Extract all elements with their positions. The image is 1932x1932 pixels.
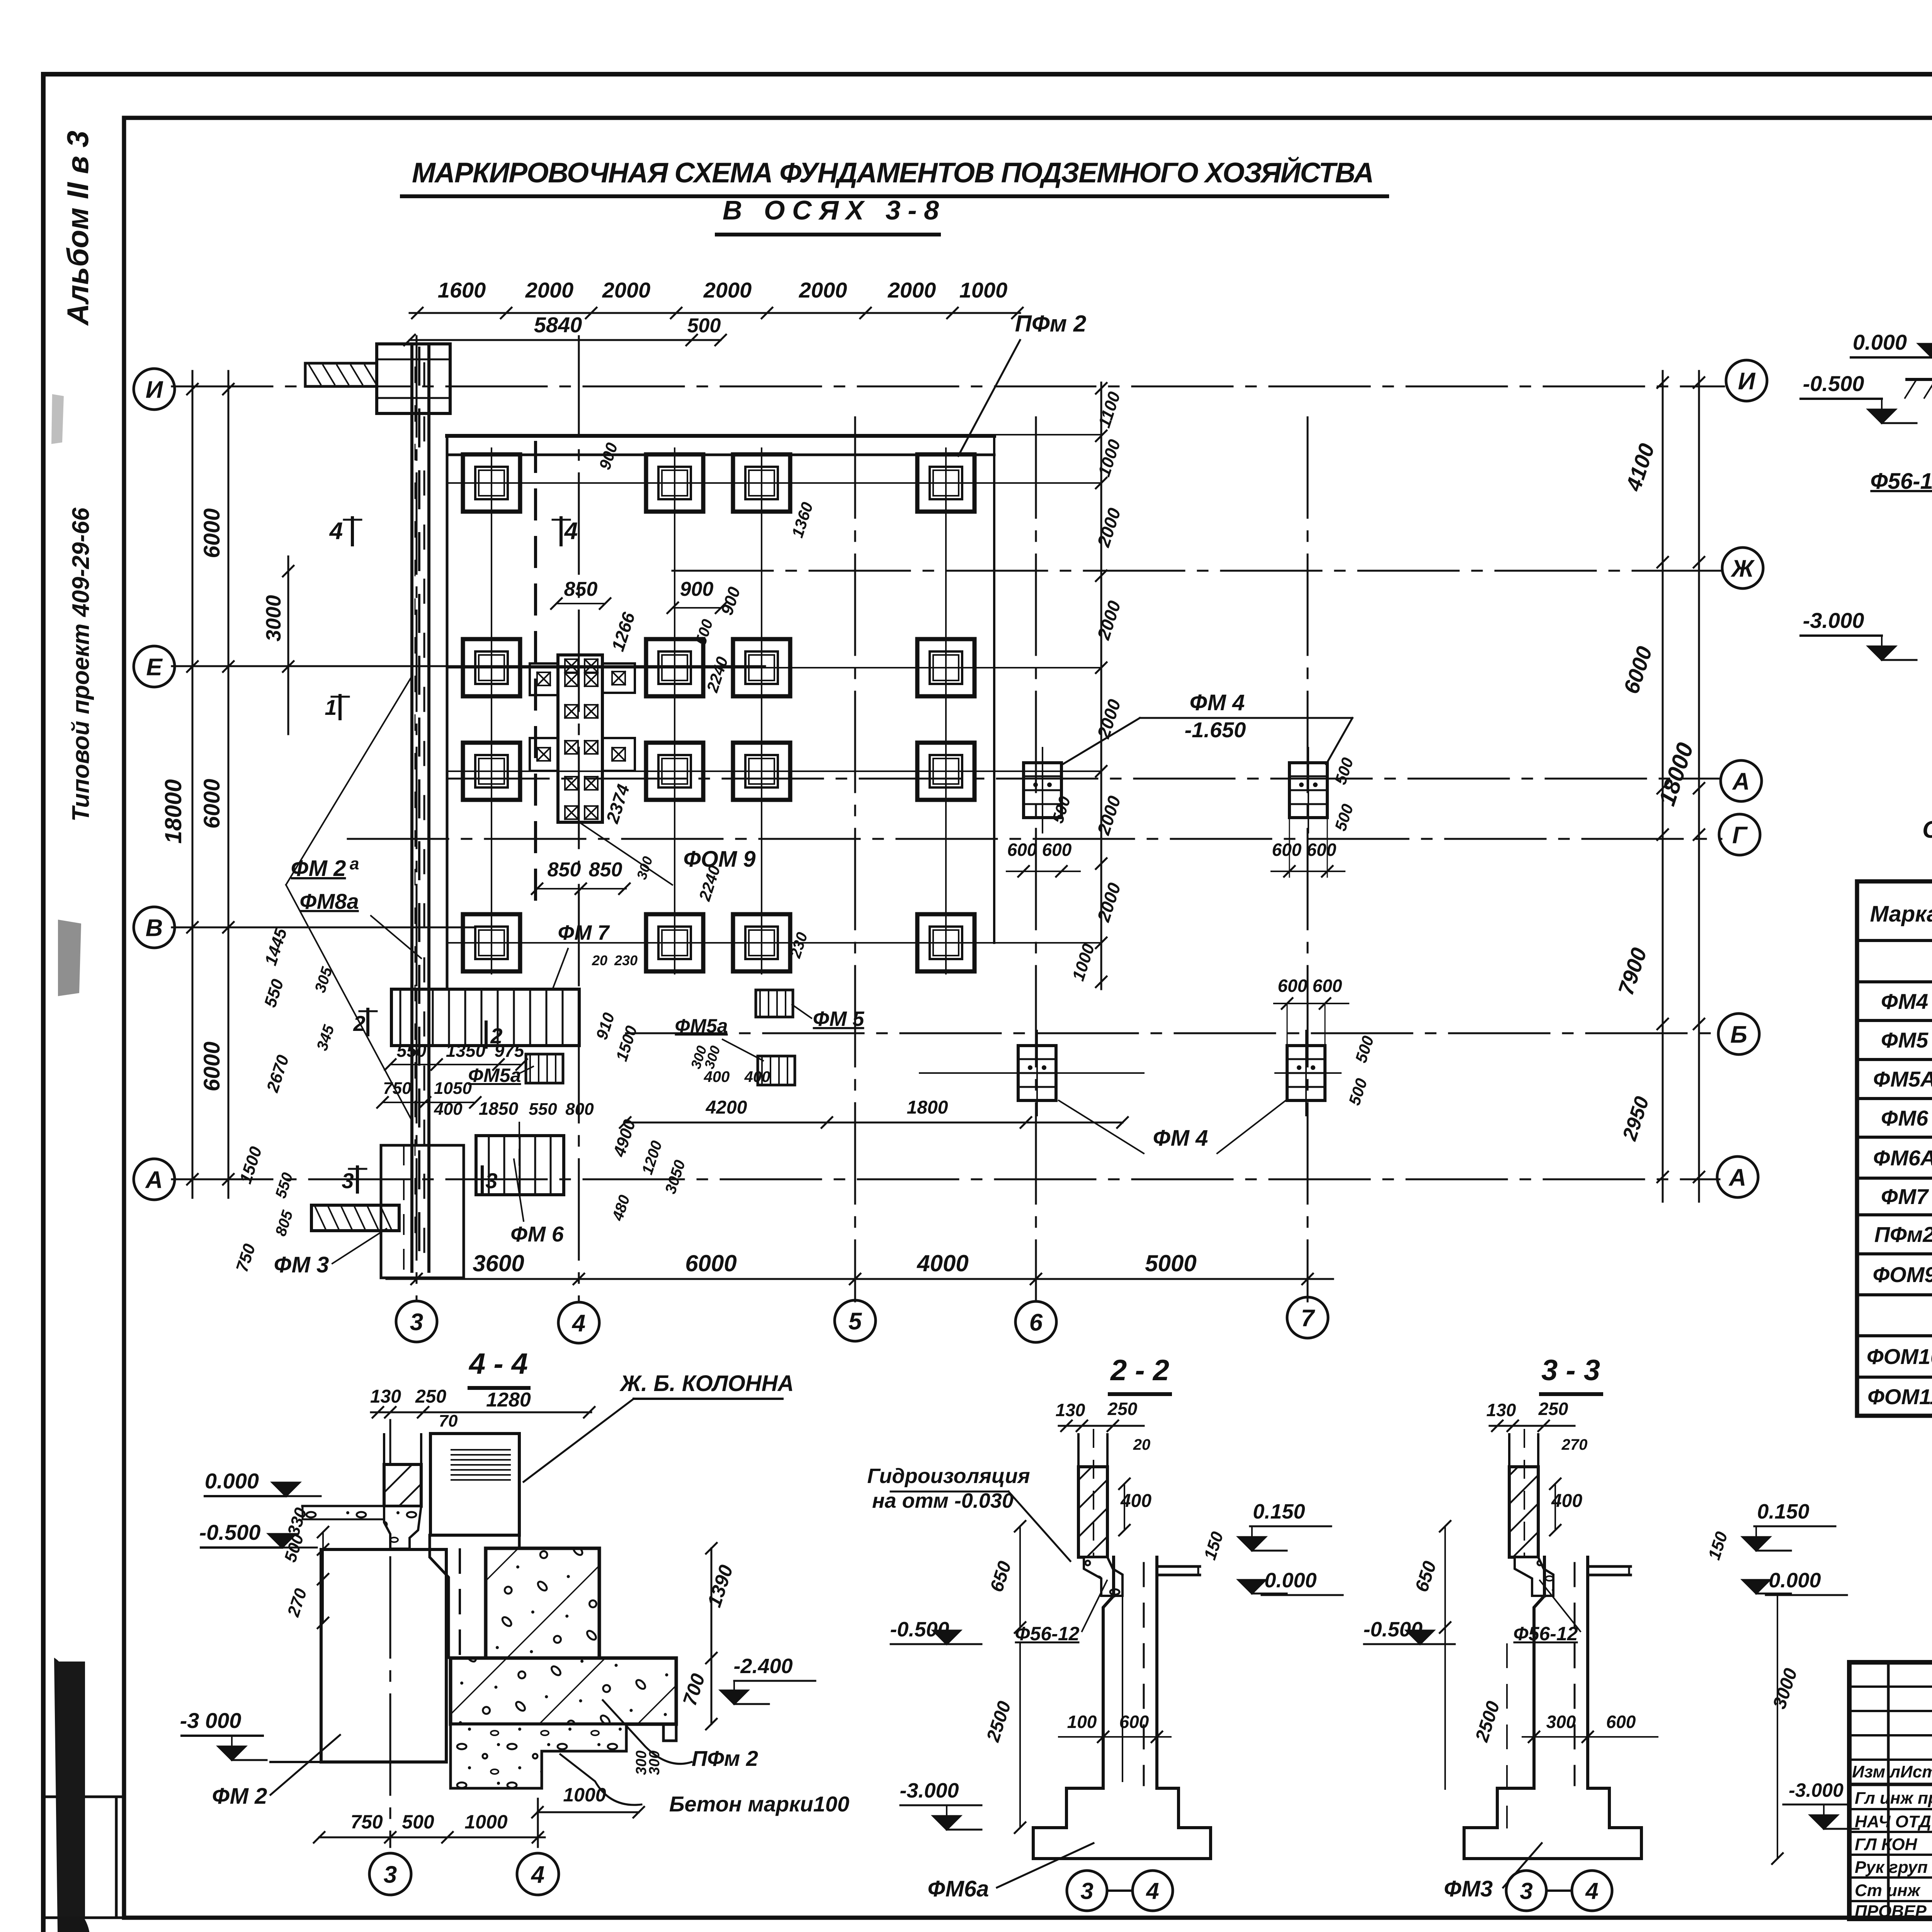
top dimension chain of plan (410, 312, 1020, 314)
axis circle А left (134, 1159, 175, 1200)
svg-text:130: 130 (1056, 1400, 1085, 1420)
svg-text:-3.000: -3.000 (900, 1779, 959, 1802)
axis circle А right mid (1721, 760, 1762, 801)
svg-text:6: 6 (1029, 1309, 1043, 1336)
3-3 column body (1534, 1557, 1588, 1788)
svg-text:2950: 2950 (1618, 1094, 1653, 1144)
svg-text:ФМ 6: ФМ 6 (510, 1222, 564, 1246)
svg-text:НАЧ ОТД: НАЧ ОТД (1855, 1812, 1931, 1831)
bottom dimension chain of plan (386, 1278, 1333, 1280)
svg-text:1000: 1000 (563, 1784, 606, 1806)
column footing r1c2 (646, 454, 703, 512)
svg-text:400: 400 (704, 1068, 730, 1085)
svg-text:250: 250 (1538, 1399, 1568, 1419)
svg-text:-0.500: -0.500 (199, 1520, 261, 1544)
svg-text:4: 4 (329, 518, 343, 544)
svg-text:3: 3 (1520, 1878, 1532, 1904)
footing ФМ4 at 3380,2777 (1287, 1046, 1325, 1100)
svg-text:270: 270 (284, 1586, 311, 1619)
svg-text:7: 7 (1301, 1305, 1315, 1332)
plan vertical axis 4 (578, 336, 580, 1301)
svg-text:2000: 2000 (602, 278, 651, 302)
svg-text:975: 975 (495, 1041, 525, 1061)
svg-text:1266: 1266 (607, 610, 639, 654)
svg-text:-3 000: -3 000 (180, 1708, 241, 1733)
svg-text:ФМ4: ФМ4 (1881, 989, 1928, 1014)
svg-text:4: 4 (531, 1861, 544, 1888)
svg-text:2 - 2: 2 - 2 (1110, 1354, 1169, 1387)
svg-text:ФМ5А: ФМ5А (1873, 1067, 1932, 1091)
svg-text:750: 750 (233, 1242, 259, 1274)
specification table grid (1857, 881, 1932, 1416)
svg-text:В ОСЯХ 3-8: В ОСЯХ 3-8 (723, 195, 939, 225)
svg-text:Ст инж: Ст инж (1855, 1881, 1921, 1900)
svg-text:5000: 5000 (1145, 1250, 1196, 1276)
svg-text:330: 330 (284, 1505, 311, 1538)
svg-text:5: 5 (849, 1308, 862, 1335)
column footing r1c4 (917, 454, 975, 512)
3-3 long extension line (1444, 1526, 1446, 1789)
svg-text:900: 900 (680, 578, 714, 600)
svg-text:-3.000: -3.000 (1789, 1779, 1844, 1801)
2-2 floor ledge (1157, 1565, 1200, 1568)
svg-text:550: 550 (529, 1100, 557, 1119)
4-4 hatched wall column (383, 1434, 385, 1464)
4-4 right dims (711, 1548, 713, 1724)
svg-text:-1.650: -1.650 (1185, 718, 1246, 742)
hatched square ФМ5а right (758, 1056, 795, 1085)
svg-text:1390: 1390 (703, 1562, 737, 1610)
svg-text:ПФм 2: ПФм 2 (1015, 311, 1086, 337)
svg-text:ФОМ9: ФОМ9 (1872, 1262, 1932, 1287)
axis circle А right bottom (1717, 1156, 1758, 1197)
footing ФМ4 at 2684,2777 (1018, 1046, 1056, 1100)
svg-text:Ж: Ж (1730, 555, 1755, 582)
svg-text:1000: 1000 (1095, 437, 1124, 479)
svg-text:1000: 1000 (1069, 941, 1099, 983)
svg-text:Марка: Марка (1870, 901, 1932, 927)
svg-text:ФОМ11: ФОМ11 (1867, 1384, 1932, 1409)
svg-text:1850: 1850 (479, 1099, 519, 1119)
svg-text:3: 3 (1080, 1878, 1093, 1904)
svg-text:270: 270 (1561, 1436, 1588, 1453)
svg-text:лИст: лИст (1889, 1762, 1932, 1781)
building outline top (447, 434, 994, 438)
svg-text:750: 750 (383, 1079, 412, 1098)
svg-text:3 - 3: 3 - 3 (1541, 1354, 1600, 1387)
svg-text:805: 805 (272, 1208, 296, 1238)
svg-text:ПРОВЕР: ПРОВЕР (1855, 1902, 1927, 1921)
svg-text:4: 4 (571, 1310, 585, 1337)
svg-text:700: 700 (679, 1671, 709, 1708)
plan vertical axis 7 (1307, 417, 1309, 1301)
svg-text:850: 850 (589, 859, 622, 881)
svg-text:И: И (1738, 368, 1756, 395)
margin ink blotches (54, 1658, 90, 1932)
building outline second line (447, 454, 994, 456)
axis circle 4 bottom (558, 1302, 599, 1343)
svg-text:850: 850 (564, 578, 598, 600)
axis circle В left (134, 907, 175, 948)
svg-text:600: 600 (1307, 840, 1337, 860)
svg-text:3: 3 (384, 1861, 397, 1888)
axis circle 7 bottom (1287, 1297, 1328, 1338)
svg-text:ФМ 2: ФМ 2 (291, 856, 346, 881)
4-4 bottom dims (319, 1837, 545, 1838)
4-4 rc column (430, 1434, 519, 1535)
svg-text:В: В (146, 915, 163, 941)
svg-text:ПФм2: ПФм2 (1874, 1222, 1932, 1247)
svg-text:600: 600 (1606, 1712, 1636, 1732)
column footing r2c2 (646, 639, 703, 696)
4-4 big foundation block (486, 1548, 599, 1658)
svg-text:250: 250 (415, 1386, 446, 1407)
svg-text:МАРКИРОВОЧНАЯ СХЕМА ФУНДАМЕН: МАРКИРОВОЧНАЯ СХЕМА ФУНДАМЕНТОВ ПОДЗЕМНО… (412, 156, 1374, 189)
svg-text:130: 130 (1486, 1400, 1516, 1420)
axis circle 3 bottom (396, 1301, 437, 1342)
title block row НАЧ ОТД (1849, 1808, 1932, 1810)
3-3 axis circles 3-4 (1506, 1871, 1546, 1911)
axis circle Ж right (1722, 548, 1763, 588)
svg-text:ФМ 5: ФМ 5 (813, 1007, 865, 1031)
svg-text:900: 900 (595, 440, 621, 472)
svg-text:3600: 3600 (473, 1250, 524, 1276)
4-4 hidden dash line (459, 1549, 461, 1762)
svg-text:ФМ6А: ФМ6А (1873, 1146, 1932, 1170)
2-2 stepped footing (1033, 1788, 1211, 1859)
title block left thin rows (1849, 1685, 1932, 1688)
svg-text:6000: 6000 (1619, 643, 1656, 697)
svg-text:150: 150 (1201, 1529, 1227, 1562)
svg-text:0.150: 0.150 (1757, 1500, 1809, 1523)
svg-text:345: 345 (313, 1023, 338, 1053)
svg-text:500: 500 (1048, 794, 1074, 825)
svg-text:ФМ5: ФМ5 (1881, 1028, 1929, 1052)
svg-text:4200: 4200 (706, 1097, 747, 1118)
svg-text:5840: 5840 (534, 313, 582, 337)
right building dim chain (1100, 383, 1102, 989)
svg-text:20: 20 (1133, 1436, 1151, 1453)
3-3 top dims (1490, 1425, 1575, 1427)
svg-text:Г: Г (1732, 822, 1748, 849)
svg-text:Б: Б (1730, 1021, 1747, 1048)
svg-text:0.000: 0.000 (1264, 1569, 1316, 1592)
4-4 floor slab (303, 1505, 384, 1508)
svg-text:2: 2 (353, 1011, 365, 1036)
svg-text:3000: 3000 (1769, 1666, 1801, 1711)
machine foundation ФОМ9 plan (558, 655, 602, 822)
svg-text:2240: 2240 (703, 655, 731, 695)
hatched square ФМ5 (756, 990, 793, 1017)
svg-text:400: 400 (744, 1068, 770, 1085)
section 4-4 cut trace dashed (534, 442, 537, 916)
T-element top left (377, 344, 450, 413)
svg-text:100: 100 (1067, 1712, 1097, 1732)
title block frame (1849, 1662, 1932, 1919)
svg-text:2000: 2000 (1093, 880, 1125, 925)
2-2 axis circles 3-4 (1067, 1871, 1107, 1911)
title block left verticals (1887, 1662, 1890, 1919)
svg-text:2500: 2500 (983, 1699, 1015, 1745)
svg-text:на отм -0.030: на отм -0.030 (872, 1489, 1014, 1512)
svg-text:600: 600 (1278, 976, 1308, 996)
svg-text:300: 300 (633, 854, 656, 881)
svg-text:Ф56-12: Ф56-12 (1514, 1623, 1578, 1645)
svg-text:3: 3 (410, 1309, 423, 1335)
sheet outer border (43, 72, 1932, 77)
plan vertical axis 3 (416, 336, 418, 1301)
column footing r3c1 (463, 743, 520, 800)
plan axis line Г dashed (348, 838, 1721, 840)
svg-text:2000: 2000 (799, 278, 847, 302)
svg-text:1445: 1445 (261, 926, 291, 968)
building outline right edge (993, 436, 995, 943)
grid thin lines through footing columns (491, 448, 492, 974)
svg-text:4 - 4: 4 - 4 (468, 1347, 528, 1380)
axis circle Б right (1718, 1014, 1759, 1054)
axis circle 6 bottom (1015, 1301, 1056, 1342)
svg-text:1200: 1200 (639, 1139, 665, 1177)
svg-text:Е: Е (146, 654, 163, 680)
svg-text:Ф56-11: Ф56-11 (1870, 469, 1932, 494)
svg-text:Гидроизоляция: Гидроизоляция (867, 1464, 1030, 1488)
right dimension chains (1662, 371, 1664, 1202)
svg-text:550: 550 (397, 1041, 427, 1061)
svg-text:230: 230 (614, 952, 638, 968)
4-4 axis dash lines (389, 1420, 391, 1847)
3-3 pedestal (1515, 1557, 1553, 1596)
svg-text:2000: 2000 (888, 278, 936, 302)
title block row ПРОВЕР (1849, 1900, 1932, 1902)
svg-text:850: 850 (548, 859, 581, 881)
4-4 left tower (321, 1549, 446, 1762)
svg-text:4: 4 (1146, 1878, 1159, 1904)
svg-text:И: И (146, 376, 163, 403)
svg-text:4: 4 (564, 518, 578, 544)
column footing r1c1 (463, 454, 520, 512)
left dimension chains (192, 371, 194, 1198)
4-4 pedestal (384, 1506, 421, 1549)
svg-text:800: 800 (565, 1100, 594, 1119)
svg-text:600: 600 (1272, 840, 1302, 860)
svg-text:2000: 2000 (703, 278, 752, 302)
svg-text:500: 500 (1345, 1076, 1371, 1107)
plan axis line А-right dashed (448, 778, 1719, 780)
svg-text:18000: 18000 (1654, 740, 1698, 809)
rail trench vertical band (410, 344, 413, 1271)
svg-text:4: 4 (1585, 1878, 1598, 1904)
svg-text:6000: 6000 (685, 1250, 736, 1276)
svg-text:2000: 2000 (1093, 598, 1125, 643)
svg-text:70: 70 (439, 1412, 458, 1430)
svg-text:Типовой проект 409-29-66: Типовой проект 409-29-66 (68, 507, 94, 821)
svg-text:500: 500 (692, 617, 716, 647)
svg-text:6000: 6000 (199, 779, 224, 828)
svg-text:1600: 1600 (438, 278, 486, 302)
margin divider (43, 1796, 124, 1798)
svg-text:300: 300 (1546, 1712, 1576, 1732)
svg-text:0.000: 0.000 (1769, 1569, 1821, 1592)
svg-text:2000: 2000 (525, 278, 574, 302)
column footing r2c3 (733, 639, 790, 696)
svg-text:Ж. Б. КОЛОННА: Ж. Б. КОЛОННА (619, 1371, 794, 1396)
svg-text:400: 400 (434, 1100, 463, 1119)
title block row Рук груп (1849, 1854, 1932, 1856)
title block row ГЛ КОН (1849, 1831, 1932, 1833)
svg-text:3: 3 (342, 1168, 354, 1193)
column footing r1c3 (733, 454, 790, 512)
axis circle Е left (134, 646, 175, 687)
svg-text:ФМ 3: ФМ 3 (274, 1252, 329, 1277)
svg-text:305: 305 (311, 965, 336, 995)
svg-text:550: 550 (272, 1170, 296, 1200)
svg-text:ФМ 2: ФМ 2 (212, 1784, 267, 1809)
svg-text:910: 910 (592, 1010, 618, 1042)
plan vertical axis 5 (854, 417, 856, 1301)
svg-text:ПФм 2: ПФм 2 (692, 1746, 758, 1770)
svg-text:750: 750 (350, 1811, 383, 1833)
column footing r4c3 (733, 914, 790, 971)
svg-text:130: 130 (370, 1386, 401, 1407)
svg-text:500: 500 (1331, 802, 1357, 833)
svg-text:150: 150 (1705, 1529, 1731, 1562)
2-2 hatched column (1077, 1434, 1080, 1467)
svg-text:2670: 2670 (263, 1053, 293, 1095)
4-4 column lower part (430, 1535, 519, 1658)
column footing r3c4 (917, 743, 975, 800)
3-3 hatched column (1508, 1434, 1510, 1467)
svg-text:1350: 1350 (446, 1041, 486, 1061)
svg-text:650: 650 (986, 1559, 1015, 1595)
svg-text:ФМ6: ФМ6 (1881, 1106, 1929, 1130)
svg-text:ФМ3: ФМ3 (1444, 1876, 1493, 1901)
svg-text:500: 500 (1352, 1034, 1377, 1065)
svg-text:600: 600 (1119, 1712, 1149, 1732)
svg-text:2000: 2000 (1093, 505, 1125, 550)
svg-text:-0.500: -0.500 (1803, 371, 1864, 396)
svg-text:а: а (350, 854, 359, 873)
svg-text:500: 500 (687, 315, 721, 337)
svg-text:1500: 1500 (612, 1024, 641, 1063)
svg-text:Бетон марки100: Бетон марки100 (669, 1792, 849, 1816)
plan axis line Ж dashed (672, 570, 1721, 572)
T-element bottom left (311, 1205, 399, 1231)
svg-text:600: 600 (1313, 976, 1342, 996)
plan axis line Б dashed (626, 1032, 1719, 1034)
svg-text:4100: 4100 (1621, 440, 1659, 494)
svg-text:1000: 1000 (959, 278, 1008, 302)
column footing r3c3 (733, 743, 790, 800)
4-4 top dims (371, 1412, 591, 1413)
axis circle 5 bottom (835, 1300, 876, 1341)
plan vertical axis 6 (1035, 417, 1037, 1301)
plan axis line В (172, 927, 475, 929)
svg-text:ГЛ КОН: ГЛ КОН (1855, 1835, 1918, 1854)
svg-text:-2.400: -2.400 (733, 1655, 793, 1678)
svg-text:ФМ7: ФМ7 (1881, 1184, 1929, 1209)
2-2 top dims (1059, 1425, 1144, 1427)
2-2 pedestal (1084, 1557, 1122, 1596)
svg-text:3: 3 (485, 1168, 497, 1193)
axis circle И right (1726, 360, 1767, 401)
plan axis line Е (172, 665, 765, 667)
svg-text:А: А (145, 1167, 163, 1193)
3-3 stepped footing (1464, 1788, 1641, 1859)
plan axis line А bottom (172, 1179, 1719, 1180)
axis circle Г right (1719, 814, 1760, 855)
3-3 floor ledge (1588, 1565, 1631, 1568)
svg-text:ФМ5а: ФМ5а (675, 1015, 728, 1037)
svg-text:1800: 1800 (907, 1097, 948, 1118)
2-2 column body (1103, 1557, 1157, 1788)
svg-text:20: 20 (592, 952, 607, 968)
grid thin lines through footing rows (448, 482, 1101, 484)
svg-text:ФМ 4: ФМ 4 (1153, 1126, 1208, 1151)
svg-text:500: 500 (402, 1811, 434, 1833)
striped block ФМ8а zone (391, 989, 579, 1046)
second dim row 5840 500 (410, 339, 721, 341)
svg-text:0.150: 0.150 (1253, 1500, 1305, 1523)
4-4 lean concrete (451, 1724, 626, 1788)
svg-text:6000: 6000 (199, 1041, 224, 1091)
svg-text:Спецификация к маркировочным: Спецификация к маркировочным схемам, рас… (1922, 816, 1932, 843)
row line through lower ФМ4 footings (920, 1072, 1144, 1074)
1-1 ground line and hatch (1907, 378, 1932, 381)
svg-text:1100: 1100 (1095, 389, 1124, 430)
svg-text:ФМ6а: ФМ6а (928, 1876, 989, 1901)
svg-text:7900: 7900 (1613, 945, 1651, 998)
svg-text:600: 600 (1007, 840, 1037, 860)
svg-text:Альбом II в 3: Альбом II в 3 (61, 131, 95, 326)
column footing r4c1 (463, 914, 520, 971)
svg-text:3050: 3050 (662, 1158, 689, 1196)
plan axis line И horizontal (172, 386, 1724, 388)
svg-text:600: 600 (1042, 840, 1072, 860)
svg-text:Рук груп: Рук груп (1855, 1858, 1928, 1877)
svg-text:0.000: 0.000 (1853, 330, 1907, 354)
svg-text:1000: 1000 (464, 1811, 507, 1833)
svg-text:ФМ 7: ФМ 7 (558, 921, 611, 944)
svg-text:ФОМ10: ФОМ10 (1867, 1344, 1932, 1369)
column footing r2c4 (917, 639, 975, 696)
svg-text:1: 1 (325, 695, 337, 719)
4-4 axis circles (369, 1853, 411, 1895)
ФОМ9 dims (556, 603, 605, 604)
svg-text:480: 480 (609, 1193, 633, 1223)
svg-text:ФМ8а: ФМ8а (299, 889, 359, 913)
svg-text:Изм: Изм (1852, 1762, 1885, 1781)
svg-text:Ф56-12: Ф56-12 (1015, 1623, 1080, 1645)
svg-text:300: 300 (646, 1750, 663, 1775)
hatched square ФМ5а left (526, 1054, 563, 1083)
svg-text:0.000: 0.000 (205, 1469, 259, 1493)
svg-text:2000: 2000 (1093, 697, 1125, 741)
svg-text:1050: 1050 (434, 1079, 472, 1098)
svg-text:А: А (1732, 768, 1750, 795)
svg-text:1280: 1280 (486, 1389, 531, 1411)
svg-text:Гл инж пр: Гл инж пр (1855, 1789, 1932, 1808)
column footing r2c1 (463, 639, 520, 696)
svg-text:6000: 6000 (199, 508, 224, 558)
svg-text:ФМ 4: ФМ 4 (1190, 690, 1245, 715)
title block row Ст инж (1849, 1876, 1932, 1879)
footing ФМ4 at 2698,2045 (1024, 763, 1061, 818)
svg-text:2500: 2500 (1471, 1699, 1504, 1745)
svg-text:-3.000: -3.000 (1803, 608, 1864, 633)
svg-text:900: 900 (718, 585, 744, 617)
column footing r4c2 (646, 914, 703, 971)
striped block ФМ6 (476, 1136, 564, 1195)
